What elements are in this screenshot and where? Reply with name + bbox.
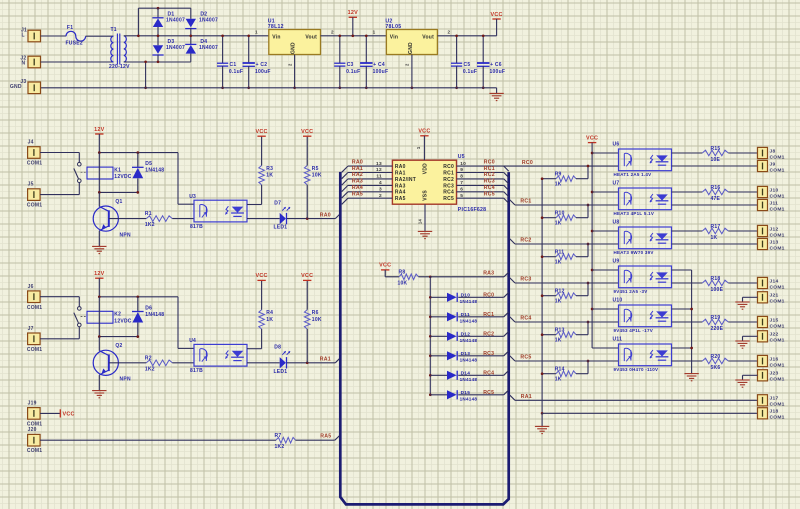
wire J18 [542,412,757,414]
junction [587,282,590,285]
svg-text:VCC: VCC [586,135,598,141]
ground rail [535,425,549,427]
svg-text:RC1: RC1 [443,170,454,176]
svg-text:J11: J11 [770,200,779,206]
wire pin RA0 [348,165,393,167]
bus entry RA3 [504,272,509,277]
svg-text:COM1: COM1 [770,245,785,251]
wire [458,374,504,376]
wire RC to opto [515,360,619,362]
connector J21 [758,292,768,303]
svg-text:COM1: COM1 [770,415,785,421]
svg-text:Vout: Vout [422,34,434,40]
connector J13 [758,238,768,249]
junction [429,275,432,278]
wire [385,276,399,278]
wire emitter [98,375,100,390]
wire [430,316,447,318]
svg-text:F1: F1 [67,25,73,31]
svg-text:N: N [22,61,26,67]
connector J16 [758,355,768,366]
resistor R12 [542,295,556,297]
svg-text:2: 2 [331,29,334,34]
junction [541,372,544,375]
bus entry [342,166,348,172]
ground top rail [489,92,503,94]
svg-text:R13: R13 [555,328,565,334]
junction [144,86,147,89]
svg-text:12VDC: 12VDC [114,174,132,180]
svg-text:RA4: RA4 [395,190,406,196]
svg-text:RC2: RC2 [484,172,495,178]
svg-text:VCC: VCC [256,129,268,135]
wire [458,355,504,357]
svg-text:J14: J14 [770,278,779,284]
svg-text:RA2: RA2 [352,172,363,178]
svg-text:R6: R6 [312,310,319,316]
svg-text:R12: R12 [555,289,565,295]
wire pin RA1 [348,172,393,174]
junction [137,34,140,37]
svg-text:RA2/INT: RA2/INT [395,177,416,183]
svg-text:COM1: COM1 [27,448,42,454]
svg-text:RA0: RA0 [395,164,406,170]
svg-text:GND: GND [408,42,414,54]
resistor R6 [304,310,310,329]
svg-text:4: 4 [379,180,382,186]
wire collector [247,204,262,206]
resistor R9 [542,178,556,180]
power 12V rail [349,16,357,18]
relay coil K1 [87,167,113,179]
diode D14 [447,371,457,380]
svg-text:Vin: Vin [390,34,398,40]
svg-text:U4: U4 [189,338,196,344]
wire collector [672,152,703,154]
svg-text:VCC: VCC [491,12,503,18]
svg-text:RA1: RA1 [521,394,532,400]
wire [157,27,159,45]
junction [306,361,309,364]
resistor R17 [702,228,728,234]
wire pin RC0 through [457,165,619,167]
opto U9 [619,266,672,288]
wire to J12 [728,230,757,232]
svg-text:RC5: RC5 [443,196,454,202]
diode D10 [447,293,457,302]
svg-text:2: 2 [448,29,451,34]
relay coil K2 [87,311,113,323]
bus entry [342,173,348,179]
transformer T1 [111,36,114,62]
wire [458,335,504,337]
wire emitter [672,282,703,284]
svg-text:J12: J12 [770,226,779,232]
junction [429,315,432,318]
wire to opto [172,218,194,220]
svg-text:COM1: COM1 [770,167,785,173]
svg-text:12VDC: 12VDC [114,318,132,324]
transistor Q1 [98,192,100,206]
svg-text:13: 13 [376,161,382,167]
svg-text:D8: D8 [274,345,281,351]
wire rail to gnd [541,413,543,426]
capacitor C1 [222,36,224,63]
svg-text:1K: 1K [266,317,273,323]
wire RC to opto [515,282,619,284]
wire to J8 [728,152,757,154]
connector J2 [28,56,41,68]
power VCC [306,137,308,166]
svg-text:RA3: RA3 [352,179,363,185]
svg-text:RA5: RA5 [352,192,363,198]
svg-text:2: 2 [405,63,410,66]
svg-text:VCC: VCC [379,263,391,269]
resistor R18 [702,280,728,286]
svg-text:1N4007: 1N4007 [166,17,185,23]
power VCC top [492,18,500,20]
connector J17 [758,395,768,406]
wire pin RC3 [457,184,504,186]
wire opto anode [177,297,179,349]
connector J22 [758,331,768,342]
wire coil [98,297,100,337]
svg-text:COM1: COM1 [770,377,785,383]
svg-text:RC3: RC3 [520,276,531,282]
svg-text:RA0: RA0 [352,159,363,165]
svg-text:RC0: RC0 [443,164,454,170]
svg-text:J13: J13 [770,239,779,245]
wire VCC to U6 [592,152,618,154]
connector J11 [758,199,768,210]
svg-text:RA1: RA1 [320,357,331,363]
junction [306,217,309,220]
svg-text:J5: J5 [28,182,34,188]
svg-text:0.1uF: 0.1uF [463,69,477,75]
opto U4 [194,344,247,366]
svg-text:1: 1 [255,29,258,34]
wire fuse-T1 [86,35,114,37]
connector J8 [758,147,768,158]
svg-text:VCC: VCC [63,412,75,418]
svg-text:LED1: LED1 [274,369,288,375]
opto U10 [619,305,672,327]
svg-text:RC1: RC1 [484,166,495,172]
svg-text:J7: J7 [28,326,34,332]
diode D11 [447,312,457,321]
svg-text:U5: U5 [458,154,465,160]
svg-text:R7: R7 [275,433,282,439]
svg-text:PIC16F628: PIC16F628 [458,207,487,213]
power VCC [306,281,308,310]
resistor R4 [259,310,265,329]
wire J22 gnd [743,335,758,337]
svg-text:R11: R11 [555,250,565,256]
diode D12 [447,332,457,341]
diode D4 [185,43,196,45]
resistor R20 [702,358,728,364]
svg-text:100uF: 100uF [490,69,506,75]
connector J3 [28,82,41,94]
wire RA1 [515,399,758,401]
wire J21 gnd [743,296,758,298]
wire bridge bottom drop [145,62,147,88]
power 12V 2 [95,277,103,279]
junction [541,255,544,258]
junction [136,335,139,338]
svg-text:T1: T1 [111,27,117,33]
resistor R14 [542,373,556,375]
connector J18 [758,408,768,419]
wire U1 out [321,35,387,37]
wire [458,316,504,318]
wire [430,335,447,337]
wire pin RA4 [348,191,393,193]
svg-text:1K2: 1K2 [145,366,155,372]
junction [136,151,139,154]
wire VCC to U7 [592,191,618,193]
svg-text:R8: R8 [399,270,406,276]
junction [591,191,594,194]
ground opto rail [684,373,698,375]
junction [136,191,139,194]
svg-text:RC1: RC1 [520,198,531,204]
svg-text:RA4: RA4 [352,185,363,191]
svg-text:GND: GND [291,42,297,54]
junction [429,374,432,377]
diode D7 [280,213,286,224]
junction [351,34,354,37]
wire [157,54,159,61]
ground Q1 [92,245,106,247]
wire [306,329,308,363]
wire [430,374,447,376]
power VCC R8 [381,269,389,271]
svg-text:Q2: Q2 [115,343,122,349]
diode D2 [190,8,192,19]
wire bridge top rail [138,7,190,9]
svg-text:HEAT1 2A5 1.4V: HEAT1 2A5 1.4V [614,172,652,177]
svg-text:2: 2 [379,193,382,199]
svg-text:220E: 220E [711,326,724,332]
svg-text:RA0: RA0 [320,212,331,218]
power VCC rail [588,142,596,144]
opto U8 [619,227,672,249]
svg-text:J19: J19 [28,400,37,406]
wire [430,394,447,396]
bus entry [504,390,509,395]
wire coil [98,153,100,193]
bus main U-shape [340,172,508,505]
wire collector to gnd rail [672,347,692,349]
svg-text:RC5: RC5 [483,390,494,396]
svg-text:1N4148: 1N4148 [460,318,478,323]
svg-text:RC3: RC3 [484,179,495,185]
svg-text:1K: 1K [266,173,273,179]
power VCC [261,137,263,166]
resistor R2 [146,360,172,366]
svg-text:6: 6 [460,187,463,193]
bus entry RA1 [335,358,340,363]
wire base [109,362,147,364]
svg-text:R20: R20 [711,354,721,360]
svg-text:K2: K2 [114,312,121,318]
svg-text:1K: 1K [555,298,562,304]
svg-text:R15: R15 [711,146,721,152]
wire to bus [287,362,335,364]
junction [541,216,544,219]
svg-text:J8: J8 [770,148,776,154]
svg-text:100E: 100E [711,287,724,293]
wire T1 secondary bottom [124,61,191,63]
svg-text:RC2: RC2 [520,237,531,243]
bus entry [504,370,509,375]
svg-text:COM1: COM1 [770,402,785,408]
svg-text:Vout: Vout [305,34,317,40]
capacitor C4 [365,36,367,63]
wire [190,28,192,44]
svg-text:RC4: RC4 [443,190,454,196]
ic U5 PIC16F628 [392,160,456,204]
svg-text:COM1: COM1 [27,305,42,311]
diode D1 [157,8,159,18]
svg-text:RA3: RA3 [395,183,406,189]
svg-text:R16: R16 [711,185,721,191]
wire to J14 [728,282,757,284]
connector J12 [758,225,768,236]
wire opto anode [177,153,179,205]
junction [587,204,590,207]
junction [541,294,544,297]
svg-text:1K2: 1K2 [145,222,155,228]
bus entry [504,292,509,297]
svg-text:1N4007: 1N4007 [166,45,185,51]
svg-text:VCC: VCC [301,129,313,135]
svg-text:K1: K1 [114,168,121,174]
wire pin RC1 [457,172,504,174]
resistor R5 [304,166,310,185]
svg-text:U8: U8 [613,220,620,226]
wire [430,355,447,357]
svg-text:5K6: 5K6 [711,365,721,371]
wire diode column [429,277,431,395]
svg-text:RA5: RA5 [320,434,331,440]
wire T1 secondary top [124,35,269,37]
wire to J16 [728,360,757,362]
svg-text:VCC: VCC [418,129,430,135]
junction [587,360,590,363]
opto U3 [194,200,247,222]
wire [458,296,504,298]
svg-text:1K2: 1K2 [275,444,285,450]
svg-text:1K: 1K [555,259,562,265]
svg-text:FUSE2: FUSE2 [66,40,83,46]
bus entry [504,173,509,178]
svg-text:14: 14 [418,219,423,225]
svg-text:9V451 2A5 -3V: 9V451 2A5 -3V [614,289,648,294]
svg-text:1: 1 [373,29,376,34]
wire RA3 [430,276,504,278]
svg-text:COM1: COM1 [27,161,42,167]
svg-text:COM1: COM1 [770,362,785,368]
svg-text:817B: 817B [190,368,203,374]
svg-text:J20: J20 [28,427,37,433]
svg-text:R9: R9 [555,172,562,178]
relay contact K2 [78,307,82,311]
svg-text:COM1: COM1 [27,203,42,209]
ground J22 [735,340,749,342]
junction [98,295,101,298]
wire J20 [40,439,276,441]
svg-text:1N4148: 1N4148 [460,299,478,304]
ground Q2 [92,390,106,392]
svg-text:COM1: COM1 [770,323,785,329]
svg-text:R1: R1 [145,211,152,217]
svg-text:1N4148: 1N4148 [460,377,478,382]
connector J19 [28,408,40,420]
relay contact K1 [78,162,82,166]
wire gnd stem [496,88,498,93]
svg-text:RC0: RC0 [522,160,533,166]
svg-text:RC3: RC3 [443,183,454,189]
svg-text:R18: R18 [711,276,721,282]
svg-text:1N4148: 1N4148 [145,312,164,318]
svg-text:VCC: VCC [256,273,268,279]
wire VCC to U8 [592,230,618,232]
svg-text:D7: D7 [274,200,281,206]
svg-text:0.1uF: 0.1uF [346,69,360,75]
pull-down rail [541,179,543,414]
connector J14 [758,277,768,288]
svg-text:100uF: 100uF [373,69,389,75]
bus entry RA5 [335,435,341,440]
bus exit [510,239,516,245]
capacitor C6 [482,36,484,63]
wire R8 node [419,276,431,278]
svg-text:78L05: 78L05 [385,24,401,30]
svg-text:J6: J6 [28,284,34,290]
wire base [109,218,147,220]
resistor R11 [542,256,556,258]
bus entry [504,192,509,197]
svg-text:RC4: RC4 [483,370,494,376]
wire U5 VSS [424,204,426,231]
junction [587,321,590,324]
wire pin RC5 [457,197,504,199]
svg-text:J18: J18 [770,409,779,415]
bus entry [504,331,509,336]
svg-text:1K: 1K [555,181,562,187]
wire J2-T1 [41,61,114,63]
svg-text:47E: 47E [711,196,721,202]
wire emitter [672,321,703,323]
wire emitter to J11 [672,204,758,206]
svg-text:RA1: RA1 [352,166,363,172]
diode D8 [280,357,286,368]
wire VCC to U11 [592,347,618,349]
capacitor C2 [248,36,250,63]
connector J1 [28,30,41,42]
junction [541,333,544,336]
svg-text:NPN: NPN [120,377,131,383]
wire J1-fuse [41,35,67,37]
junction [136,295,139,298]
junction [587,243,590,246]
wire [190,54,192,62]
svg-text:U3: U3 [189,194,196,200]
resistor R7 [276,437,296,443]
resistor R8 [399,274,419,280]
